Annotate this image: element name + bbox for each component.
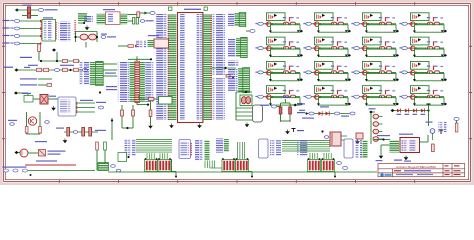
U3 right labels (439, 121, 447, 132)
U8 right pin ticks (191, 142, 192, 156)
power flag +5V (427, 103, 431, 105)
ladder label +5V (369, 108, 376, 109)
diode value text (302, 118, 314, 119)
spare pins (78, 13, 87, 21)
U6 label (49, 96, 56, 97)
FB1 label (35, 141, 47, 142)
wire Y2 b (236, 111, 253, 113)
U1 right net labels (213, 14, 226, 75)
capacitor C13 (104, 142, 107, 150)
resistor R6 vertical (38, 44, 41, 52)
JP5 right pins (140, 62, 145, 102)
capacitor C6 (136, 18, 138, 25)
crystal Y2 body (253, 105, 263, 122)
net flag AREF (54, 69, 59, 72)
opto driver channel K4 (399, 13, 447, 33)
ground Y1 (85, 26, 88, 30)
rev text (445, 165, 449, 166)
wire drop L7 (164, 153, 166, 159)
JP5 left labels (118, 62, 129, 102)
wire Y1 gnd (78, 22, 84, 24)
J14 labels (355, 140, 362, 158)
junction rails (126, 127, 128, 129)
wire choke top (236, 91, 252, 93)
bundle labels left (125, 139, 136, 156)
label POWERSUPPLY (45, 9, 58, 10)
wire T1 left (26, 112, 28, 134)
title block (378, 164, 465, 177)
MCU U1 ATMEGA2560 (178, 13, 203, 123)
resistor R11 (63, 68, 68, 71)
junction Y1 (83, 22, 85, 24)
Y1 inner text (107, 14, 113, 24)
wire choke left rail (235, 92, 237, 120)
opto driver channel K8 (399, 37, 447, 57)
wire rail c (122, 127, 133, 129)
wire Y1 cap (127, 20, 132, 22)
U1 left pins (168, 14, 177, 120)
junction J8 (127, 156, 129, 158)
op-amp U2 body (58, 97, 76, 116)
junction diamond (391, 109, 395, 112)
wire T2 out (28, 152, 38, 154)
filter label right1 (297, 103, 305, 104)
wire bundle R2 (282, 142, 330, 144)
junction XT b (96, 36, 98, 38)
net flag BL2 (13, 169, 18, 172)
junction diamond filter (293, 104, 297, 107)
resistor ladder R2 (373, 122, 379, 127)
net flag PWR (38, 9, 43, 12)
diode D9 box (24, 96, 33, 103)
net flag row 2 (14, 27, 19, 30)
label VIN_CHK (260, 105, 269, 106)
wire U6 out (48, 98, 58, 100)
crystal cap XC1 (80, 34, 88, 40)
junction diode row left (305, 112, 307, 114)
net flag cap (140, 20, 144, 23)
pin tick (135, 45, 137, 47)
label 22pF (101, 34, 107, 35)
wire drop L8 (166, 153, 168, 159)
wire +5V stub (284, 99, 286, 103)
wire RESET2 (38, 84, 52, 86)
choke L1 body (240, 95, 252, 106)
capacitor C_avcc (204, 7, 207, 10)
resistor ladder R3 (373, 129, 379, 134)
U3 pin names right (410, 140, 417, 152)
net flag VCC c (350, 112, 355, 115)
net flag row 4 (14, 42, 19, 45)
wire drop N4 (244, 142, 246, 159)
U8 body (179, 140, 191, 159)
resonator body (106, 12, 121, 25)
J12 labels (228, 68, 238, 92)
resistor ladder R1 (373, 114, 379, 119)
net label col1 (106, 86, 117, 87)
junction top (99, 91, 101, 93)
U1 left pin ticks (168, 14, 169, 120)
net flag T1 out (45, 121, 50, 124)
capacitor C21 (289, 107, 292, 114)
capacitor C15 (121, 110, 124, 116)
wire drop R7 (328, 153, 330, 159)
wire AVCC (246, 30, 250, 32)
wire drop R3 (314, 153, 316, 159)
opto driver channel K3 (351, 13, 399, 33)
wire C13 down (104, 150, 106, 163)
bundle labels right (297, 140, 308, 157)
wire drop M2 (206, 161, 208, 169)
ground U1 right (198, 124, 201, 128)
J11 labels (228, 38, 236, 57)
ground USB area (286, 130, 289, 134)
wire Y4 down2 (150, 117, 152, 125)
net flag RN b (343, 167, 348, 170)
red dot filter b (289, 120, 290, 121)
transistor T2 (20, 149, 28, 157)
resistor R3 (137, 12, 140, 18)
label BLM21 (48, 151, 66, 152)
wire U2 o2 (76, 107, 95, 109)
wire drop M4 (211, 161, 213, 169)
wire Y4 b (139, 98, 148, 100)
label RESET1 (20, 78, 37, 79)
net flag AREF out (82, 69, 87, 72)
wire diode chain (392, 110, 429, 112)
wire drop N2 (239, 142, 241, 159)
svg-text:Arduino Mega ATMEGA2560: Arduino Mega ATMEGA2560 (396, 165, 436, 169)
wire RN3 out (235, 171, 252, 173)
opto driver channel K9 (255, 61, 303, 81)
diode D2 (326, 112, 329, 116)
net flag VCC a (309, 112, 314, 115)
wire T1 right (39, 112, 41, 134)
varistor Z1 (356, 133, 363, 139)
U7 right labels (58, 22, 72, 42)
wire up (428, 104, 430, 111)
J11 pins (236, 38, 240, 57)
label GND (376, 160, 383, 161)
U3 refdes (399, 134, 413, 135)
opto driver channel K11 (351, 61, 399, 81)
capacitor C5 (133, 18, 135, 25)
net flag VIN (271, 105, 276, 108)
red dot filter a (280, 120, 281, 121)
wire drop L4 (153, 153, 155, 159)
J10 labels (227, 13, 234, 26)
ground U3 b (404, 156, 407, 160)
pin tick row 3 (40, 35, 41, 37)
U7 body (42, 20, 56, 42)
wire filter b (289, 103, 291, 121)
wire JP5 stub (136, 56, 138, 61)
J10 pins (235, 13, 239, 26)
net flag RN a (337, 162, 342, 165)
wire bundle L2 (136, 141, 172, 143)
sheet text (396, 174, 413, 175)
wire bundle L3 (136, 143, 172, 145)
transistor T1 (28, 117, 36, 125)
U4 left labels (136, 40, 146, 48)
wire Y4 down (150, 101, 152, 111)
capacitor C1 (27, 7, 30, 13)
opto driver channel K12 (399, 61, 447, 81)
junction diamond AREF2 (15, 68, 19, 71)
wire right rail (111, 118, 113, 140)
wire into RN3 (210, 167, 222, 169)
junction border a (175, 176, 177, 178)
wire Y2 d (236, 119, 253, 121)
wire AREF main (18, 69, 86, 71)
ground U3 (379, 154, 382, 158)
rev text3 (445, 174, 450, 175)
label dfu (404, 161, 411, 162)
USB jack body (330, 132, 341, 146)
U9 labels (270, 140, 281, 156)
diode labels (320, 106, 329, 107)
wire bundle L6 (136, 149, 172, 151)
U1 left net labels (156, 14, 167, 120)
wire U3 right (420, 141, 429, 143)
resistor R10 (44, 68, 49, 71)
opto driver channel K13 (255, 86, 303, 106)
wire bottom rail (108, 171, 377, 173)
resistor R17 (226, 75, 230, 78)
resistor R13 (47, 84, 52, 87)
crystal cap XC2 (89, 34, 97, 40)
resistor R12 (74, 68, 79, 71)
U1 refdes label (184, 9, 201, 10)
sheet background (0, 0, 474, 185)
U7 refdes (43, 17, 53, 18)
EasyEDA logo (380, 173, 383, 176)
junction R17 (232, 77, 234, 79)
net label col2 (106, 89, 117, 90)
wire rail b (132, 105, 134, 128)
diode chain labels (397, 114, 402, 115)
Y1 left labels (84, 16, 93, 24)
JP5 right labels (145, 62, 153, 102)
resistor network RN5 (322, 160, 335, 172)
capacitor C_vcc (169, 7, 172, 10)
resistor network RN1 (145, 160, 158, 172)
resistor R_edge (455, 123, 458, 132)
net flag edge (454, 118, 459, 121)
junction diamond AREF (52, 48, 56, 51)
wire U2 o3 (76, 111, 95, 113)
wire drop M5 (214, 161, 216, 169)
label aux2 (20, 57, 32, 58)
J9 pins (205, 141, 210, 161)
net flag VIN row (73, 131, 78, 134)
U4 body (154, 39, 169, 48)
wire bundle R5 (282, 148, 330, 150)
diode D6 (413, 109, 416, 113)
J6 body (96, 61, 104, 85)
opto driver channel K6 (303, 37, 351, 57)
AREF label2 (60, 65, 74, 66)
wire row 1 (20, 20, 40, 22)
J13 labels (216, 139, 224, 153)
resistor network RN3b (236, 160, 249, 172)
U8 inner (181, 142, 190, 157)
wire ladder stub 3 (379, 131, 383, 133)
resistor network RN2 (158, 160, 171, 172)
U4 left pins (148, 40, 154, 47)
wire XT mid (76, 36, 98, 38)
wire AREF v1 (38, 52, 40, 62)
U2 pin ticks (76, 102, 77, 113)
opto driver channel K1 (255, 13, 303, 33)
cap label (146, 20, 154, 21)
wire PW1 (15, 9, 38, 11)
wire XT right (96, 32, 98, 43)
wire Y1 out2 (140, 12, 150, 14)
wire drop L6 (161, 153, 163, 159)
junction choke top (245, 91, 247, 93)
net flag J7 b (116, 169, 121, 172)
wire drop M3 (209, 161, 211, 169)
wire U6 in (33, 98, 40, 100)
wire filter out (290, 104, 293, 106)
resistor R9 (37, 68, 42, 71)
net flag VCC b (334, 112, 339, 115)
pin tick row 2 (40, 27, 41, 29)
net flag BL3 (22, 169, 27, 172)
wire bundle L5 (136, 147, 172, 149)
power tbar (292, 129, 296, 133)
label +5V (23, 5, 32, 6)
wire drop R6 (325, 153, 327, 159)
net flag USB (324, 136, 328, 139)
net label row 2 (3, 27, 10, 28)
wire AREF top (40, 60, 80, 62)
resistor R8 (74, 59, 79, 62)
crystal Y3 (430, 129, 435, 134)
wire ladder stub 1 (379, 116, 383, 118)
wire drop M1 (204, 161, 206, 169)
capacitor C11 (82, 128, 85, 137)
wire drop N3 (241, 142, 243, 159)
net flag row 3 (14, 35, 19, 38)
small box J8 (118, 153, 127, 162)
choke L1 coil a (241, 97, 246, 104)
net flag XTAL (150, 12, 155, 15)
wire bundle L1 (136, 139, 172, 141)
filter label right2 (297, 112, 305, 113)
label aux1 (4, 67, 13, 68)
J14 pins (363, 141, 368, 158)
wire U2 o1 (76, 102, 95, 104)
Y1 label (103, 9, 115, 10)
wire Y3 down (432, 134, 434, 141)
ground Y2 (245, 123, 248, 127)
net label right (341, 116, 349, 117)
opto driver channel K15 (351, 86, 399, 106)
wire bundle R1 (282, 140, 330, 142)
J6 right label (105, 73, 116, 74)
U1 right net labels lower (213, 78, 226, 120)
resistor R5 (128, 45, 133, 48)
opto driver channel K2 (303, 13, 351, 33)
resistor R_u3 vertical (432, 144, 435, 152)
wire T1 bottom (27, 133, 41, 135)
Y1 right pins (120, 14, 127, 24)
bus line (25, 164, 76, 166)
crystal Y4 body (159, 97, 173, 105)
ladder frame (371, 112, 375, 144)
wire bundle R4 (282, 146, 330, 148)
J6 pins (90, 62, 96, 85)
net label row 4 (3, 42, 10, 43)
BL labels (3, 167, 27, 168)
diode D7 (421, 109, 424, 113)
resistor R7 (63, 59, 68, 62)
U3 pin names (402, 140, 409, 152)
wire RESET1 (38, 78, 52, 80)
resistor network RN4 (308, 160, 321, 172)
junction JP5 (150, 58, 152, 60)
label load (426, 122, 433, 123)
wire AREF v2 (56, 52, 58, 61)
wire drop L5 (159, 153, 161, 159)
wire drop L2 (148, 153, 150, 159)
U1 right pins (203, 14, 212, 120)
U1 left pin names (179, 14, 185, 120)
resistor R19 vertical (149, 110, 152, 117)
U7 pin names (44, 21, 52, 40)
pin ticks mid (75, 20, 76, 35)
junction AREF c (69, 69, 71, 71)
wire diode row (306, 113, 352, 115)
wire rail a (121, 105, 123, 128)
U4 label (148, 35, 159, 36)
wire U3 gnd (380, 145, 382, 154)
wire USB a (341, 135, 347, 137)
ferrite FB1 (39, 150, 46, 157)
label XTAL2 (107, 36, 116, 37)
wire PW2 (22, 15, 38, 17)
capacitor C12 (89, 128, 92, 137)
rev text2 (445, 170, 450, 171)
wire XT top (76, 31, 98, 33)
junction JP5 bottom (147, 104, 149, 106)
opto driver channel K16 (399, 86, 447, 106)
wire RN3 down (251, 172, 253, 177)
label +VIN (95, 130, 106, 131)
J9 labels (195, 140, 204, 161)
junction diamond PW (15, 8, 19, 11)
wire XT left (75, 32, 77, 43)
wire J6 c (103, 75, 117, 77)
junction USB (321, 130, 323, 132)
wire PM a (18, 92, 29, 94)
resistor network RN3 (222, 160, 235, 172)
net flag XT (101, 36, 106, 39)
opto driver channel K14 (303, 86, 351, 106)
U1 right pin names (197, 14, 203, 120)
wire filter bottom (281, 120, 291, 122)
junction AREF b (56, 60, 58, 62)
U2 out label1 (80, 100, 93, 101)
wire Y1 out1 (127, 14, 137, 16)
wire T2 (18, 152, 20, 154)
net flag row 1 (14, 20, 19, 23)
wire ladder stub 4 (379, 138, 383, 140)
wire drop R1 (309, 153, 311, 159)
junction diamond BL (15, 151, 19, 154)
